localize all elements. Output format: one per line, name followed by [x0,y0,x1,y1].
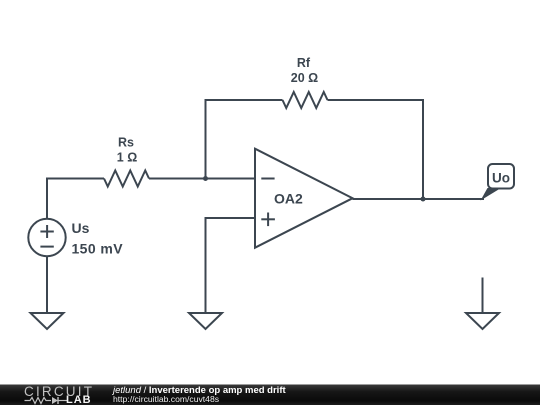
wire: source top to Rs [47,179,104,220]
wire: op-amp output [353,198,485,200]
svg-text:Us: Us [72,220,90,236]
CircuitLab logo [24,384,94,405]
value 150 mV [72,240,124,256]
op-amp OA2 [255,149,353,248]
svg-text:LAB: LAB [66,394,92,405]
wire: source bottom to ground [46,256,48,313]
node flag Uo [481,164,515,201]
svg-text:OA2: OA2 [274,191,303,207]
node junction at output [421,197,426,202]
wire: floating ground stub [482,278,484,314]
ground below non-inverting input [189,313,222,329]
wire: feedback left vertical [205,100,207,179]
ground below source [31,313,64,329]
svg-text:Rf: Rf [297,56,311,70]
wire: Rs to op-amp inverting input [149,178,255,180]
svg-text:150 mV: 150 mV [72,240,124,256]
svg-text:http://circuitlab.com/cuvt48s: http://circuitlab.com/cuvt48s [113,394,219,404]
svg-text:Rs: Rs [118,136,134,150]
ground at right [466,313,499,329]
resistor Rs [104,171,149,187]
wire: non-inverting input [206,218,256,313]
footer bar [0,385,540,405]
footer credit line [111,385,286,404]
value 1 Ohm [117,151,137,165]
wire: feedback top right horizontal [328,99,424,101]
node junction at inverting input [203,176,208,181]
label Rs [118,136,134,150]
label Rf [297,56,311,70]
resistor Rf [283,92,328,108]
svg-text:20 Ω: 20 Ω [291,71,318,85]
label Us [72,220,90,236]
svg-text:1 Ω: 1 Ω [117,151,137,165]
voltage source Us [28,219,65,256]
wire: feedback top left horizontal [205,99,283,101]
svg-text:Uo: Uo [492,171,510,186]
value 20 Ohm [291,71,318,85]
wire: feedback right vertical to output [422,99,424,199]
label OA2 [274,191,303,207]
